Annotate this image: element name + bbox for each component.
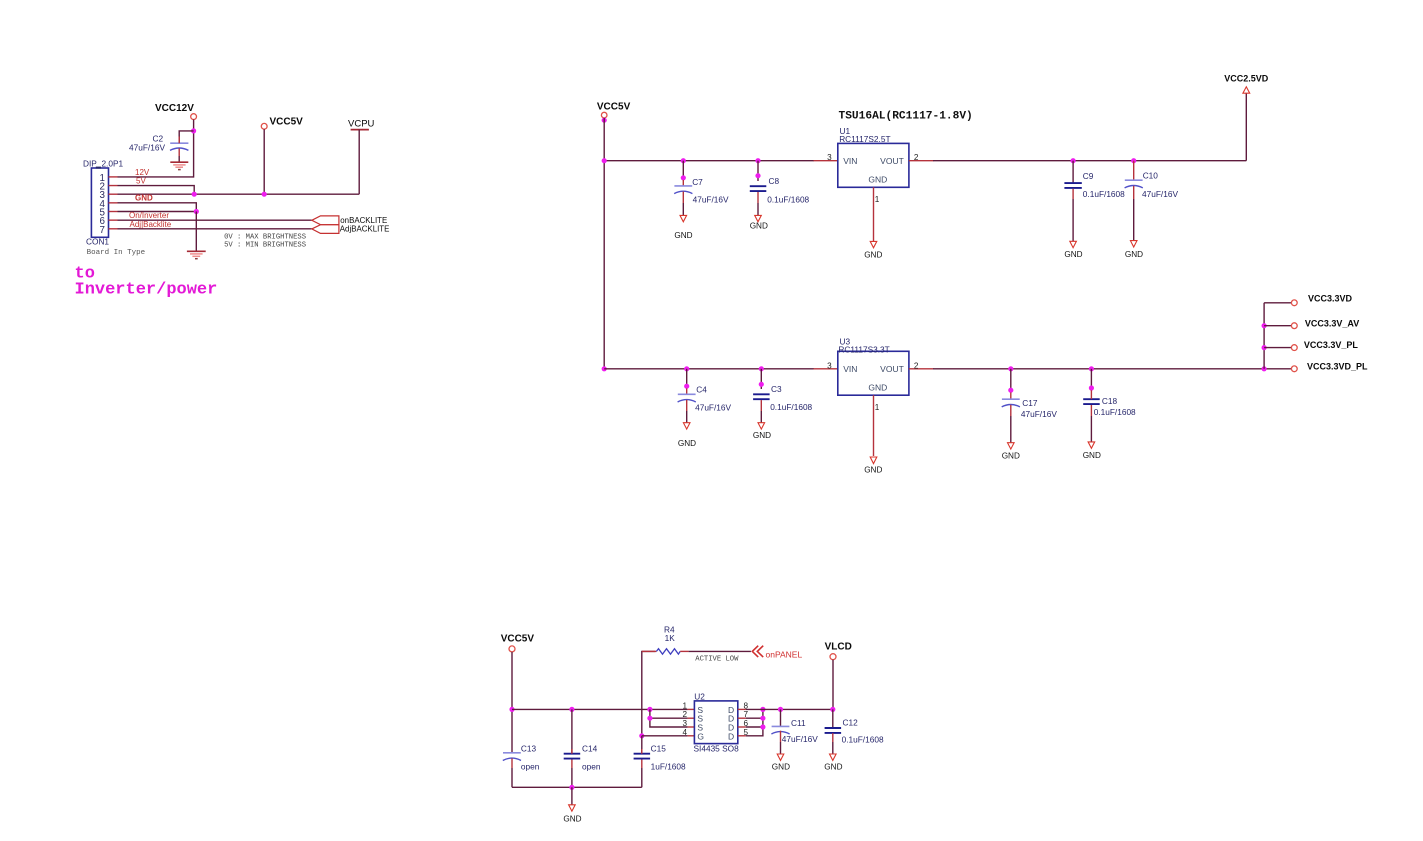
svg-text:GND: GND — [563, 815, 581, 824]
junction VCC12V/C2 — [191, 128, 196, 133]
wire VCC5V vertical — [263, 129, 265, 194]
wire branch vertical — [1263, 303, 1265, 369]
ground arrow C18 — [1088, 442, 1095, 448]
wire C8 drop — [757, 161, 759, 181]
junction R4/pin4 — [639, 733, 644, 738]
svg-text:Inverter/power: Inverter/power — [75, 281, 218, 300]
capacitor C3 symbol — [753, 393, 770, 395]
junction branch PL — [1262, 345, 1267, 350]
wire C10 to gnd — [1133, 199, 1135, 241]
ground arrow C7 — [680, 215, 687, 221]
svg-text:0.1uF/1608: 0.1uF/1608 — [767, 194, 809, 204]
wire C4 drop — [686, 369, 688, 389]
power VCC5V port circle (row1) — [601, 112, 607, 118]
wire VOUT row2 — [933, 368, 1291, 370]
svg-text:DIP_2.0P1: DIP_2.0P1 — [83, 158, 124, 168]
svg-text:onPANEL: onPANEL — [766, 649, 803, 659]
capacitor C17 polarized symbol — [1010, 392, 1012, 399]
svg-text:C13: C13 — [521, 744, 537, 754]
wire C11 to gnd — [780, 742, 782, 754]
svg-text:4: 4 — [682, 728, 687, 737]
wire C14 drop — [571, 709, 573, 753]
pin stub U1.2 — [909, 160, 934, 162]
wire R4 to onPANEL — [689, 650, 751, 652]
svg-text:U2: U2 — [694, 692, 705, 702]
pin stub U2.4 — [688, 735, 695, 737]
wire branch VCC3.3V_PL — [1264, 347, 1291, 349]
svg-text:C9: C9 — [1083, 171, 1094, 181]
svg-text:1K: 1K — [665, 633, 676, 643]
wire gnd drop — [571, 787, 573, 805]
junction pin7 — [760, 716, 765, 721]
power VCC5V port circle (top-left) — [261, 123, 267, 129]
junction pin4/pin5 — [194, 209, 199, 214]
svg-text:C17: C17 — [1022, 398, 1038, 408]
pin stub 6 — [109, 219, 118, 221]
svg-text:RC1117S3.3T: RC1117S3.3T — [838, 345, 889, 355]
pin stub U2.3 — [688, 726, 695, 728]
svg-text:5V : MIN BRIGHTNESS: 5V : MIN BRIGHTNESS — [224, 241, 306, 249]
wire VOUT row1 — [933, 160, 1246, 162]
svg-text:5V: 5V — [136, 177, 146, 186]
wire bottom bus left — [512, 708, 688, 710]
wire C10 drop — [1133, 161, 1135, 181]
wire row1 bus VIN — [604, 160, 814, 162]
wire VCPU vertical — [358, 130, 360, 195]
pin stub U3.1 — [873, 395, 875, 456]
svg-text:C14: C14 — [582, 744, 598, 754]
svg-text:1: 1 — [682, 701, 687, 710]
wire C13 to bottom bus — [511, 768, 513, 787]
svg-text:C11: C11 — [791, 718, 806, 728]
svg-text:VCC2.5VD: VCC2.5VD — [1224, 73, 1269, 83]
capacitor C2 polarized symbol — [170, 142, 188, 144]
op-amp U1 body — [838, 143, 909, 187]
port circle VCC3.3V_AV — [1291, 323, 1297, 329]
pin stub U2.1 — [688, 708, 695, 710]
svg-text:47uF/16V: 47uF/16V — [695, 402, 731, 412]
ground earth symbol pins 4/5 — [187, 250, 206, 252]
junction pin2 — [647, 716, 652, 721]
wire C7 drop — [682, 161, 684, 180]
svg-text:VOUT: VOUT — [880, 364, 904, 374]
ground arrow C3 — [758, 423, 765, 429]
wire up to VCC2.5VD — [1245, 93, 1247, 161]
power VCC12V port circle — [191, 114, 197, 120]
junction C8 pin — [755, 173, 760, 178]
power VCPU bar symbol — [351, 129, 369, 131]
pin stub 1 — [109, 176, 118, 178]
ground arrow C12 — [830, 754, 837, 760]
wire branch VCC3.3VD — [1264, 302, 1291, 304]
junction pin6 — [760, 724, 765, 729]
capacitor C9 symbol — [1064, 182, 1081, 184]
svg-text:C8: C8 — [769, 176, 780, 186]
svg-text:47uF/16V: 47uF/16V — [693, 195, 729, 205]
connector CON1 body — [91, 168, 108, 237]
wire pins 5-8 tie — [746, 717, 763, 719]
svg-text:C4: C4 — [696, 385, 707, 395]
svg-text:AdjBACKLITE: AdjBACKLITE — [340, 224, 390, 233]
power VCC5V port circle (bottom) — [509, 646, 515, 652]
pin stub 3 — [109, 193, 118, 195]
pin stub U1.3 — [814, 160, 838, 162]
junction C11 top — [778, 707, 783, 712]
junction U2 pins123 — [647, 707, 652, 712]
wire C15 to bottom bus — [641, 768, 643, 787]
wire VCC5V down to bus and C13 — [511, 652, 513, 753]
wire pin4 GND — [118, 203, 197, 212]
junction row1/vcc5v — [602, 158, 607, 163]
svg-text:VCC3.3VD_PL: VCC3.3VD_PL — [1307, 361, 1368, 371]
svg-text:2: 2 — [682, 710, 687, 719]
junction gnd bus — [569, 785, 574, 790]
ground arrow C9 — [1070, 241, 1077, 247]
wire GND drop — [195, 212, 197, 252]
wire R4 left corner — [642, 651, 656, 735]
svg-text:GND: GND — [674, 231, 692, 240]
wire C17 drop — [1010, 369, 1012, 393]
junction C14 top — [569, 707, 574, 712]
junction C18 top — [1089, 366, 1094, 371]
capacitor C15 symbol — [634, 753, 651, 755]
pin stub 2 — [109, 185, 118, 187]
svg-text:GND: GND — [824, 763, 842, 772]
junction C4 top — [684, 366, 689, 371]
capacitor C14 symbol — [564, 753, 581, 755]
svg-text:On/Inverter: On/Inverter — [129, 211, 169, 220]
svg-text:47uF/16V: 47uF/16V — [782, 734, 818, 744]
svg-text:C3: C3 — [771, 384, 782, 394]
junction C4 pin — [684, 384, 689, 389]
svg-text:47uF/16V: 47uF/16V — [129, 143, 165, 153]
wire pin1 12V — [118, 176, 194, 178]
svg-text:C7: C7 — [692, 177, 703, 187]
junction C3 pin — [759, 382, 764, 387]
ground arrow C8 — [755, 215, 762, 221]
svg-text:0.1uF/1608: 0.1uF/1608 — [1094, 407, 1136, 417]
power VLCD port circle — [830, 654, 836, 660]
svg-text:VCC5V: VCC5V — [597, 102, 631, 113]
capacitor C4 polarized symbol — [686, 388, 688, 394]
svg-text:GND: GND — [1002, 451, 1020, 460]
svg-text:GND: GND — [1083, 451, 1101, 460]
svg-text:GND: GND — [864, 466, 882, 475]
ground earth symbol under C2 — [170, 161, 188, 163]
wire branch to C2 — [179, 131, 193, 144]
capacitor C11 polarized symbol — [772, 725, 790, 727]
junction below VCC5V — [602, 118, 607, 123]
port tag onBACKLITE — [312, 216, 339, 225]
junction pins8 top — [760, 707, 765, 712]
junction C3 top — [759, 366, 764, 371]
svg-text:open: open — [521, 762, 540, 772]
svg-text:3: 3 — [827, 153, 832, 162]
junction pin2/pin3 — [192, 192, 197, 197]
svg-text:GND: GND — [868, 383, 887, 393]
svg-text:SI4435 SO8: SI4435 SO8 — [694, 744, 740, 754]
capacitor C10 polarized symbol — [1125, 179, 1143, 181]
svg-text:CON1: CON1 — [86, 236, 109, 246]
svg-text:2: 2 — [914, 153, 919, 162]
transistor U2 body — [694, 701, 737, 744]
svg-text:GND: GND — [753, 431, 771, 440]
wire pin2 U2 — [650, 709, 688, 727]
pin stub U2.5 — [738, 735, 746, 737]
svg-text:GND: GND — [868, 175, 887, 185]
pin stub 7 — [109, 228, 118, 230]
svg-text:Adj|Backlite: Adj|Backlite — [130, 220, 172, 229]
wire C18 to gnd — [1090, 416, 1092, 442]
junction VCC5V/bus — [509, 707, 514, 712]
svg-text:47uF/16V: 47uF/16V — [1021, 409, 1057, 419]
capacitor C18 symbol — [1083, 398, 1100, 400]
junction C17 pin — [1008, 388, 1013, 393]
svg-text:TSU16AL(RC1117-1.8V): TSU16AL(RC1117-1.8V) — [839, 111, 973, 123]
svg-text:GND: GND — [772, 763, 790, 772]
wire C4 to gnd — [686, 411, 688, 423]
svg-text:VIN: VIN — [843, 156, 857, 166]
svg-text:7: 7 — [100, 225, 105, 236]
svg-text:VOUT: VOUT — [880, 156, 904, 166]
svg-text:3: 3 — [682, 719, 687, 728]
wire bottom gnd bus — [512, 786, 642, 788]
svg-text:VCC3.3V_PL: VCC3.3V_PL — [1304, 340, 1359, 350]
wire C14 to bottom bus — [571, 768, 573, 787]
svg-text:G: G — [697, 731, 704, 741]
pin stub U1.1 — [873, 187, 875, 241]
svg-text:GND: GND — [864, 250, 882, 259]
port circle VCC3.3V_PL — [1291, 345, 1297, 351]
svg-text:C12: C12 — [843, 718, 859, 728]
pin stub U2.6 — [738, 726, 746, 728]
wire C3 to gnd — [760, 411, 762, 423]
svg-text:3: 3 — [827, 361, 832, 370]
ground arrow C4 — [683, 423, 690, 429]
svg-text:VIN: VIN — [843, 364, 857, 374]
junction row2 corner — [602, 366, 607, 371]
wire C11 drop — [780, 709, 782, 726]
junction output branch — [1262, 366, 1267, 371]
svg-text:1: 1 — [875, 195, 880, 204]
wire VLCD down — [832, 660, 834, 710]
pin stub U3.3 — [814, 368, 838, 370]
port tag AdjBACKLITE — [312, 225, 339, 234]
wire bottom bus right — [746, 708, 833, 710]
wire C12 drop — [832, 709, 834, 727]
port circle VCC3.3VD — [1291, 300, 1297, 306]
port circle VCC3.3VD_PL — [1291, 366, 1297, 372]
wire C18 drop — [1090, 369, 1092, 390]
wire row2 bus VIN — [604, 368, 814, 370]
wire pin7 Adj/Backlite — [118, 228, 312, 230]
wire pin5 GND — [118, 211, 197, 213]
svg-text:0V : MAX BRIGHTNESS: 0V : MAX BRIGHTNESS — [224, 234, 306, 242]
svg-text:GND: GND — [750, 222, 768, 231]
svg-text:47uF/16V: 47uF/16V — [1142, 189, 1178, 199]
pin stub U2.8 — [738, 708, 746, 710]
wire C12 to gnd — [832, 742, 834, 754]
capacitor C8 symbol — [750, 185, 767, 187]
port chevron onPANEL — [752, 646, 758, 657]
wire pin2 5V — [118, 186, 195, 195]
svg-text:GND: GND — [1064, 250, 1082, 259]
svg-text:Board In Type: Board In Type — [87, 249, 146, 257]
svg-text:VLCD: VLCD — [825, 641, 852, 652]
pin stub 4 — [109, 202, 118, 204]
svg-text:C10: C10 — [1143, 170, 1159, 180]
svg-text:VCPU: VCPU — [348, 118, 375, 129]
capacitor C7 polarized symbol — [682, 180, 684, 186]
svg-text:VCC12V: VCC12V — [155, 103, 194, 114]
wire C9 to gnd — [1072, 199, 1074, 241]
svg-text:0.1uF/1608: 0.1uF/1608 — [842, 734, 884, 744]
svg-text:GND: GND — [1125, 250, 1143, 259]
svg-text:1: 1 — [875, 403, 880, 412]
wire pin3 5V bus to VCPU — [118, 193, 360, 195]
ground arrow C17 — [1008, 443, 1015, 449]
wire branch VCC3.3V_AV — [1264, 325, 1291, 327]
ground arrow C10 — [1130, 241, 1137, 247]
wire C3 drop — [760, 369, 762, 389]
svg-text:GND: GND — [678, 439, 696, 448]
svg-text:D: D — [728, 731, 734, 741]
svg-text:open: open — [582, 762, 601, 772]
pin stub U3.2 — [909, 368, 934, 370]
svg-text:VCC3.3V_AV: VCC3.3V_AV — [1305, 319, 1359, 329]
wire VCC5V vertical down to row2 — [603, 118, 605, 369]
svg-text:GND: GND — [135, 194, 153, 203]
junction C10 top — [1131, 158, 1136, 163]
power arrow VCC2.5VD — [1243, 87, 1250, 93]
svg-text:ACTIVE LOW: ACTIVE LOW — [695, 655, 739, 663]
junction C9 top — [1071, 158, 1076, 163]
ground arrow bottom — [569, 805, 576, 811]
svg-text:VCC3.3VD: VCC3.3VD — [1308, 293, 1353, 303]
ground arrow U1 — [870, 241, 877, 247]
junction C8 top — [755, 158, 760, 163]
svg-text:VCC5V: VCC5V — [501, 633, 535, 644]
junction C7 top — [681, 158, 686, 163]
junction VCC5V/pin3 — [262, 192, 267, 197]
junction VLCD/C12 — [830, 707, 835, 712]
junction C7 pin — [681, 175, 686, 180]
svg-text:C18: C18 — [1102, 396, 1118, 406]
svg-text:0.1uF/1608: 0.1uF/1608 — [770, 402, 812, 412]
pin stub R4 right — [680, 650, 688, 652]
svg-text:2: 2 — [914, 361, 919, 370]
wire C9 drop — [1072, 161, 1074, 183]
pin stub U2.2 — [688, 717, 695, 719]
junction branch AV — [1262, 323, 1267, 328]
wire C8 to gnd — [757, 203, 759, 215]
wire pin6 On/Inverter — [118, 219, 312, 221]
pin stub 5 — [109, 211, 118, 213]
svg-text:RC1117S2.5T: RC1117S2.5T — [839, 134, 890, 144]
wire C17 to gnd — [1010, 416, 1012, 443]
wire VCC12V vertical to pin1 net — [193, 120, 195, 178]
capacitor C12 symbol — [825, 727, 842, 729]
capacitor C13 polarized symbol — [503, 752, 521, 754]
junction C17 top — [1008, 366, 1013, 371]
op-amp U3 body — [838, 351, 909, 395]
junction C18 pin — [1089, 385, 1094, 390]
wire pin4 U2 — [642, 735, 688, 737]
pin stub U2.7 — [738, 717, 746, 719]
ground arrow C11 — [777, 754, 784, 760]
ground arrow U3 — [870, 457, 877, 464]
svg-text:VCC5V: VCC5V — [270, 117, 304, 128]
svg-text:1uF/1608: 1uF/1608 — [651, 762, 686, 772]
resistor R4 zigzag — [656, 649, 680, 654]
svg-text:0.1uF/1608: 0.1uF/1608 — [1083, 189, 1125, 199]
wire C7 to gnd — [682, 203, 684, 215]
wire C2 to ground — [178, 156, 180, 162]
wire R4 line to C15 — [641, 736, 643, 754]
svg-text:C15: C15 — [651, 744, 667, 754]
